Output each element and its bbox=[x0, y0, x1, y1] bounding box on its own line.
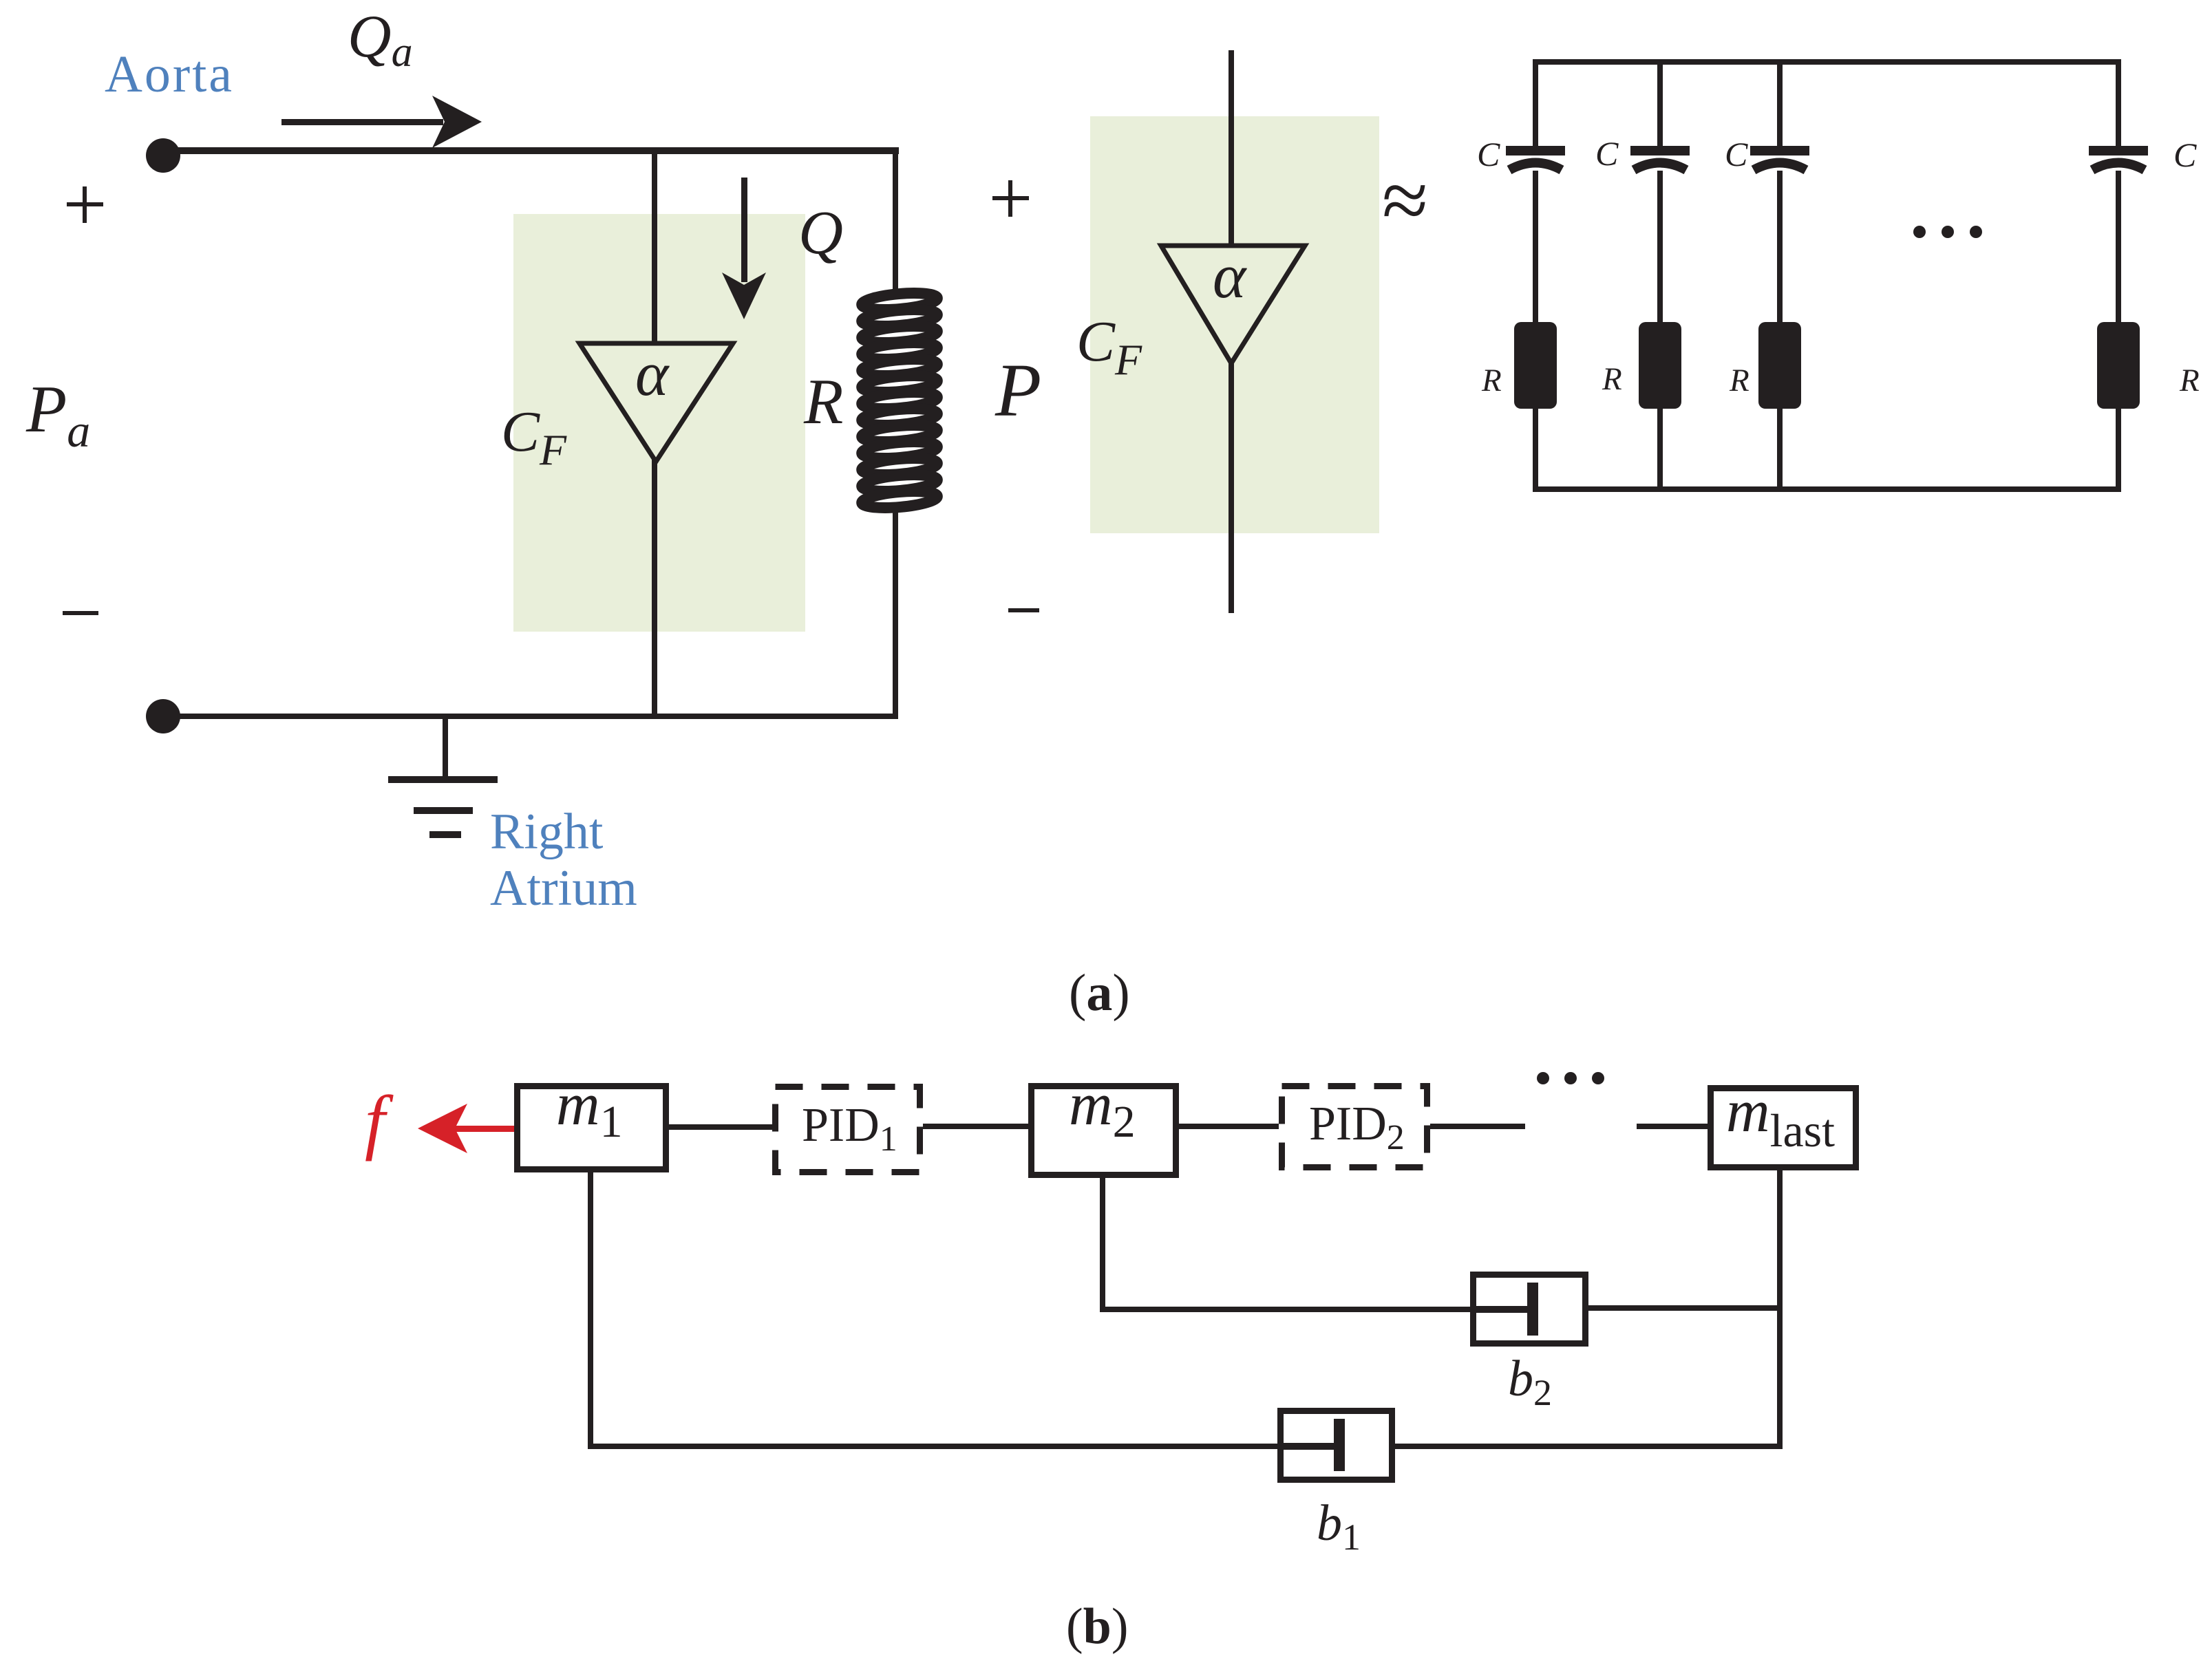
svg-text:Atrium: Atrium bbox=[490, 860, 637, 917]
force arrow f bbox=[418, 1104, 518, 1153]
wire ladder branch1 bottom bbox=[1533, 409, 1538, 492]
wire ladder branch2 top bbox=[1657, 59, 1663, 149]
wire ladder branch3 bottom bbox=[1777, 409, 1783, 492]
svg-text:R: R bbox=[1729, 363, 1750, 398]
svg-text:Qa: Qa bbox=[348, 3, 413, 76]
svg-text:(a): (a) bbox=[1069, 964, 1130, 1022]
svg-text:C: C bbox=[2173, 136, 2197, 174]
svg-text:P: P bbox=[995, 348, 1041, 432]
ladder bottom wire bbox=[1533, 486, 2121, 492]
capacitor C4 bbox=[2089, 146, 2148, 170]
controller PID1 (dashed) bbox=[776, 1087, 920, 1172]
wire right branch upper bbox=[893, 153, 898, 297]
wire top horizontal bbox=[163, 147, 899, 154]
node A top-left bbox=[146, 138, 180, 173]
ladder top wire bbox=[1533, 59, 2121, 65]
resistor R coil bbox=[861, 290, 937, 511]
node B bottom-left bbox=[146, 699, 180, 733]
svg-text:R: R bbox=[803, 366, 843, 438]
wire CF apex 1 to bottom bbox=[652, 460, 657, 716]
flow arrow Qa bbox=[281, 96, 482, 148]
wire PID2 right stub bbox=[1430, 1124, 1525, 1129]
wire top to CF triangle 1 bbox=[652, 153, 657, 345]
minus sign P bbox=[1008, 608, 1039, 612]
wire to mlast stub bbox=[1637, 1124, 1708, 1129]
resistor R1 bbox=[1514, 322, 1557, 409]
resistor R4 bbox=[2097, 322, 2140, 409]
svg-text:Pa: Pa bbox=[25, 372, 90, 457]
plus sign P bbox=[992, 180, 1029, 217]
wire bottom horizontal bbox=[163, 714, 898, 719]
wire ladder branch3 mid bbox=[1777, 171, 1783, 323]
green highlight block CF 2 bbox=[1090, 116, 1379, 533]
svg-text:m1: m1 bbox=[556, 1071, 623, 1147]
svg-text:C: C bbox=[1477, 135, 1500, 173]
ellipsis ladder bbox=[1913, 226, 1982, 238]
svg-text:Q: Q bbox=[798, 199, 843, 267]
ground bar 3 bbox=[429, 831, 461, 838]
svg-text:b1: b1 bbox=[1317, 1495, 1361, 1558]
CF triangle U1 (alpha gain element) bbox=[579, 343, 733, 462]
bottom wire left of b1 bbox=[588, 1444, 1277, 1449]
svg-text:Aorta: Aorta bbox=[105, 45, 234, 103]
svg-text:f: f bbox=[365, 1081, 394, 1161]
ellipsis chain bbox=[1537, 1072, 1604, 1084]
resistor R3 bbox=[1758, 322, 1801, 409]
svg-text:C: C bbox=[1725, 135, 1748, 173]
wire ladder branch1 mid bbox=[1533, 171, 1538, 323]
mass m1 bbox=[518, 1086, 666, 1170]
svg-text:(b): (b) bbox=[1066, 1598, 1128, 1655]
damper b1 bbox=[1277, 1411, 1392, 1480]
resistor R2 bbox=[1639, 322, 1681, 409]
svg-text:R: R bbox=[1481, 363, 1502, 398]
capacitor C3 bbox=[1750, 146, 1809, 170]
wire b2 to mlast branch bbox=[1588, 1305, 1783, 1311]
wire middle branch lower bbox=[1229, 361, 1234, 613]
wire m2 down bbox=[1100, 1175, 1105, 1309]
plus sign Pa bbox=[67, 186, 103, 223]
svg-text:R: R bbox=[1602, 361, 1622, 397]
ground bar 2 bbox=[414, 807, 473, 814]
flow arrow Q bbox=[722, 178, 766, 319]
svg-text:PID1: PID1 bbox=[802, 1099, 897, 1159]
wire ladder branch4 bottom bbox=[2116, 409, 2121, 492]
svg-text:α: α bbox=[635, 339, 670, 409]
svg-text:m2: m2 bbox=[1069, 1071, 1136, 1147]
green highlight block CF 1 bbox=[513, 214, 805, 632]
svg-text:≈: ≈ bbox=[1382, 154, 1428, 247]
svg-text:PID2: PID2 bbox=[1309, 1097, 1405, 1157]
wire mlast down bbox=[1777, 1170, 1783, 1449]
wire PID1 to m2 bbox=[923, 1124, 1028, 1129]
damper b2 bbox=[1470, 1275, 1586, 1344]
wire ladder branch1 top bbox=[1533, 59, 1538, 149]
wire ladder branch3 top bbox=[1777, 59, 1783, 149]
wire m1 down bbox=[588, 1172, 593, 1449]
svg-text:b2: b2 bbox=[1508, 1351, 1552, 1413]
capacitor C1 bbox=[1506, 146, 1565, 170]
wire m2 to damper b2 bbox=[1100, 1307, 1470, 1312]
ground stem bbox=[443, 716, 448, 780]
capacitor C2 bbox=[1630, 146, 1690, 170]
wire m2 to PID2 bbox=[1179, 1124, 1279, 1129]
CF triangle U2 (alpha gain element) bbox=[1161, 246, 1305, 363]
bottom wire right of b1 bbox=[1395, 1444, 1783, 1449]
wire ladder branch4 mid bbox=[2116, 171, 2121, 323]
svg-text:α: α bbox=[1213, 241, 1247, 311]
wire ladder branch4 top bbox=[2116, 59, 2121, 149]
svg-text:R: R bbox=[2179, 363, 2200, 398]
svg-text:C: C bbox=[1595, 134, 1619, 173]
wire ladder branch2 bottom bbox=[1657, 409, 1663, 492]
wire m1 to PID1 bbox=[669, 1124, 772, 1130]
wire middle branch upper bbox=[1229, 50, 1234, 248]
minus sign Pa bbox=[63, 611, 98, 615]
ground bar 1 bbox=[388, 776, 498, 783]
mass mlast bbox=[1711, 1089, 1856, 1168]
mass m2 bbox=[1032, 1086, 1176, 1175]
wire ladder branch2 mid bbox=[1657, 171, 1663, 323]
controller PID2 (dashed) bbox=[1282, 1086, 1427, 1168]
svg-text:Right: Right bbox=[490, 804, 604, 860]
wire right branch lower bbox=[893, 508, 898, 716]
